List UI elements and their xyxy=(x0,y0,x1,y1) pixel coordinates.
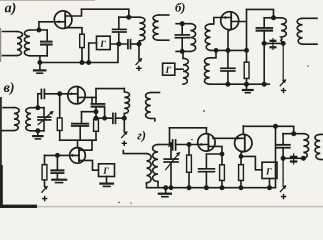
label v) xyxy=(4,82,14,95)
output tank top rail xyxy=(96,88,124,90)
resistor R6 xyxy=(221,154,223,165)
input transformer L11 leads xyxy=(3,107,14,109)
label a) xyxy=(5,3,16,16)
output tank coil L13 xyxy=(124,89,129,114)
tank capacitor C1 plates (blurred scan) xyxy=(40,41,53,45)
transistor V1 xyxy=(54,11,72,29)
node output tank top xyxy=(292,132,295,135)
transistor V2 xyxy=(221,12,239,30)
riser tank to base wire xyxy=(37,94,39,108)
supply terminal drop xyxy=(138,44,140,60)
node supply/collector xyxy=(274,125,277,128)
L15 bottom hook xyxy=(147,183,152,188)
V6 collector top wire xyxy=(243,126,293,133)
base wire xyxy=(177,144,209,146)
heterodyne box G xyxy=(99,164,115,177)
input transformer winding L1 leads xyxy=(3,31,18,33)
R3 bottom wire xyxy=(59,131,61,141)
node tank bottom left xyxy=(263,42,266,45)
lower ground rail xyxy=(210,83,269,85)
C10 right lead xyxy=(104,108,106,118)
input winding L15 xyxy=(147,154,152,183)
V1 collector wire xyxy=(65,9,81,16)
capacitor C17 across rail xyxy=(293,154,295,164)
tank bottom rail xyxy=(283,157,305,159)
G letter b) xyxy=(165,67,171,73)
tank coil L2 xyxy=(24,30,30,56)
node drop/cap branch xyxy=(94,110,97,113)
tank coil L16 xyxy=(153,145,158,182)
feedback capacitor C10 (blurred scan) xyxy=(91,103,106,107)
node C2/L3 junction xyxy=(117,42,120,45)
series capacitor C3 plates xyxy=(127,40,129,49)
C12 bottom lead + ground xyxy=(56,174,58,179)
V3 collector wire xyxy=(78,96,96,98)
V6 collector riser xyxy=(242,126,244,134)
supply terminal drop xyxy=(123,118,125,131)
supply arrow xyxy=(136,59,141,64)
node tank/varcap xyxy=(169,143,172,146)
wire base riser xyxy=(38,22,40,30)
plus sign b) xyxy=(281,88,286,93)
resistor R3 xyxy=(57,118,62,131)
wire to G box xyxy=(241,156,262,169)
V4 top riser xyxy=(77,140,79,148)
supply arrow xyxy=(280,80,285,85)
plus sign v2) xyxy=(42,196,47,201)
output transformer secondary L14 xyxy=(146,93,151,119)
V2 emitter wire xyxy=(228,29,231,50)
supply terminal drop xyxy=(282,158,284,180)
plus sign v) xyxy=(122,141,127,146)
V5 emitter wire xyxy=(208,146,222,154)
ground bars xyxy=(34,69,45,71)
node R1/rail xyxy=(80,61,83,64)
bypass capacitor C15 branch xyxy=(206,154,222,169)
wire tank to lower rail xyxy=(263,43,265,84)
G box right lead xyxy=(175,68,183,70)
tank top rail xyxy=(31,107,44,109)
L18 bottom lead xyxy=(320,159,323,161)
L7 bottom wire xyxy=(281,40,283,43)
node ground stub xyxy=(164,186,167,189)
wire R1 bottom xyxy=(81,48,83,63)
output transformer secondary L8 xyxy=(297,18,302,44)
output tank coil L3 xyxy=(139,17,145,41)
output transformer secondary L4 xyxy=(153,15,159,40)
output tank coil L7 xyxy=(281,18,286,41)
L14 top lead xyxy=(151,92,160,94)
L10 top lead riser xyxy=(210,50,216,57)
winding L10 xyxy=(205,58,210,84)
node R5/rail xyxy=(187,186,190,189)
L8 bottom lead xyxy=(303,43,318,45)
input lead with stub xyxy=(123,151,146,154)
node wire/rail xyxy=(263,83,266,86)
wire base to transistor xyxy=(39,21,65,23)
tank bottom rail xyxy=(262,42,283,44)
plus sign g) xyxy=(281,194,286,199)
node base/R3 xyxy=(58,92,61,95)
terminal gap wire xyxy=(282,181,284,186)
rail to V4 top xyxy=(60,139,96,141)
node base/R5 xyxy=(187,143,190,146)
scan edge artifacts xyxy=(0,97,2,208)
heterodyne box G xyxy=(97,36,111,49)
base wire left xyxy=(38,93,40,95)
resistor R7 xyxy=(240,156,242,164)
G box left lead xyxy=(89,43,97,63)
V4 emitter wire to G box xyxy=(79,160,99,170)
L18 top lead xyxy=(320,133,323,135)
series capacitor C13 plates xyxy=(172,140,174,150)
node wire/drop xyxy=(94,117,97,120)
tank top rail xyxy=(158,144,171,146)
input tank top rail xyxy=(176,23,190,25)
node tank bottom right xyxy=(282,42,285,45)
ground under tank xyxy=(37,131,39,136)
transistor V3 xyxy=(68,87,85,104)
tank capacitor C16 branch xyxy=(282,134,284,145)
node tank bottom left xyxy=(281,157,284,160)
resistor R2 xyxy=(244,62,249,78)
V5 collector riser xyxy=(205,128,207,134)
variable capacitor C8 branch xyxy=(43,108,45,117)
tank coil L12 xyxy=(26,108,31,131)
G letter v) xyxy=(103,168,109,174)
feedback riser xyxy=(169,128,171,145)
label b) xyxy=(175,3,184,15)
node C7 bottom xyxy=(226,83,229,86)
V4 base wire xyxy=(45,154,80,156)
resistor R5 xyxy=(187,155,192,172)
V4 collector wire to drop xyxy=(79,140,92,150)
input tank bottom rail xyxy=(176,50,190,52)
node emitter/G wire xyxy=(239,155,242,158)
resistor R4 xyxy=(42,165,47,180)
ground wire under tank xyxy=(39,56,41,70)
resistor R4 branch xyxy=(44,155,46,164)
collector riser xyxy=(246,9,248,50)
V5 to V6 wire xyxy=(213,137,245,139)
wire tank bottom to L9 xyxy=(182,51,184,58)
node Gbox/rail xyxy=(87,61,90,64)
node cap top xyxy=(181,22,184,25)
node C15/rail xyxy=(205,186,208,189)
node cap bottom xyxy=(181,50,184,53)
scan specks xyxy=(203,110,205,112)
resistor R1 xyxy=(80,34,85,47)
node base/tank xyxy=(37,28,40,31)
heterodyne box G xyxy=(163,63,175,75)
node base/C12 xyxy=(56,154,59,157)
node L10 riser/rail xyxy=(214,49,217,52)
node C10/wire xyxy=(103,117,106,120)
resistor R3 drop xyxy=(59,94,61,118)
bypass capacitor C12 (blurred scan) xyxy=(50,170,64,174)
ground under G box xyxy=(106,177,108,184)
variable capacitor arrow xyxy=(38,112,51,124)
output tank top rail xyxy=(283,133,304,135)
node at output tank top xyxy=(127,16,130,19)
transistor V6 xyxy=(235,134,252,151)
label g) xyxy=(137,131,145,142)
node emitter branch xyxy=(220,152,223,155)
bottom ground rail xyxy=(151,187,276,189)
output wire with series cap C11 xyxy=(96,117,111,119)
variable capacitor arrow xyxy=(166,154,179,170)
G box bottom stub xyxy=(269,179,271,188)
capacitor C5 plates (blurred scan) xyxy=(256,27,274,31)
node varcap/rail xyxy=(169,186,172,189)
node emitter/rail xyxy=(226,49,229,52)
wire L3 bottom to node xyxy=(138,41,140,44)
R2 leads xyxy=(246,50,248,84)
variable capacitor C14 branch xyxy=(170,145,172,159)
input transformer winding L1 xyxy=(17,32,23,56)
G letter a) xyxy=(100,41,106,47)
L8 top lead xyxy=(303,17,318,19)
resistor R8 in drop xyxy=(94,119,99,131)
top wire collector rail xyxy=(82,9,129,17)
node tank bottom xyxy=(36,129,39,132)
resistor R5 drop xyxy=(188,145,190,156)
feedback top wire xyxy=(170,127,207,129)
coupling coil L6 xyxy=(205,24,210,50)
ground symbol xyxy=(165,188,167,194)
coupling winding L9 xyxy=(183,58,188,84)
capacitor C6 across rail xyxy=(272,39,274,50)
C12 top lead xyxy=(56,155,58,169)
bottom rail xyxy=(40,44,118,63)
series capacitor C9 xyxy=(40,89,42,98)
node ground/rail xyxy=(38,61,41,64)
node output tank top xyxy=(272,16,275,19)
transistor V4 xyxy=(70,148,86,164)
tank capacitor C4 xyxy=(181,24,183,35)
emitter bypass capacitor C7 xyxy=(227,50,229,68)
node tank top xyxy=(36,106,39,109)
node Gbox/rail xyxy=(268,186,271,189)
L16 bottom lead xyxy=(157,182,159,188)
node wire/L13 xyxy=(123,117,126,120)
supply arrow v2 xyxy=(42,187,47,192)
ground symbol xyxy=(246,84,248,90)
L13 bottom lead xyxy=(123,114,125,119)
heterodyne box G xyxy=(262,162,277,178)
series capacitor C11 plates xyxy=(112,113,114,123)
output transformer secondary L18 xyxy=(315,134,320,159)
node rail/riser xyxy=(245,49,248,52)
node tank bottom right xyxy=(302,157,305,160)
R4 bottom lead xyxy=(44,180,46,186)
cap branch wire xyxy=(82,111,97,113)
L6 top lead to base xyxy=(211,18,232,25)
wire G-box to node with series cap xyxy=(110,43,127,45)
L6 bottom to emitter rail xyxy=(211,49,247,51)
supply arrow xyxy=(122,132,127,137)
riser to tank rail xyxy=(95,89,97,98)
tank coil L5 xyxy=(190,24,195,52)
top wire to output tank xyxy=(247,9,274,17)
supply drop xyxy=(282,43,284,79)
capacitor C18 xyxy=(81,112,83,124)
node R2/rail xyxy=(245,83,248,86)
L4 top lead xyxy=(159,14,169,16)
node C7 top xyxy=(226,49,229,52)
capacitor C2 branch xyxy=(118,17,120,29)
G letter g) xyxy=(266,168,272,174)
tank top rail xyxy=(30,29,47,31)
input transformer winding L11 xyxy=(14,108,19,131)
plus sign a) xyxy=(136,66,141,71)
tank bottom rail xyxy=(31,130,44,132)
transistor V5 xyxy=(198,134,215,151)
node R7/rail xyxy=(239,186,242,189)
V2 collector wire xyxy=(231,21,246,23)
L14 bottom lead xyxy=(151,119,155,122)
output tank top rail xyxy=(119,16,140,18)
supply riser xyxy=(275,126,277,187)
capacitor C5 branch xyxy=(263,18,265,28)
output tank top rail xyxy=(264,17,281,19)
node R6/rail xyxy=(220,186,223,189)
V1 emitter wire xyxy=(65,28,82,35)
L4 bottom lead xyxy=(159,39,169,41)
V6 emitter wire xyxy=(241,151,245,157)
collector drop wire xyxy=(95,97,97,119)
base wire to transistor xyxy=(45,93,78,95)
tank capacitor C1 branch wires xyxy=(46,30,48,41)
output tank coil L17 xyxy=(303,134,308,159)
C10 left lead xyxy=(91,97,93,103)
supply arrow g) xyxy=(280,186,285,191)
tank bottom rail xyxy=(30,55,47,57)
